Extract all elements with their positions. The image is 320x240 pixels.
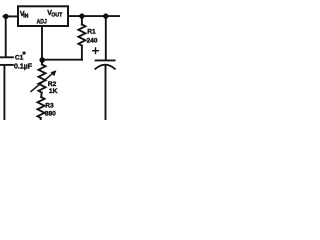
svg-text:R3: R3 [45, 103, 54, 110]
svg-text:R1: R1 [87, 29, 96, 36]
svg-text:OUT: OUT [51, 12, 63, 18]
svg-text:R2: R2 [48, 81, 57, 88]
svg-text:240: 240 [87, 37, 98, 44]
svg-text:880: 880 [45, 111, 56, 118]
svg-text:0.1µF: 0.1µF [14, 64, 33, 71]
svg-text:1K: 1K [49, 88, 58, 95]
svg-text:*: * [22, 50, 26, 60]
svg-text:ADJ: ADJ [37, 18, 47, 25]
svg-text:IN: IN [23, 13, 28, 19]
